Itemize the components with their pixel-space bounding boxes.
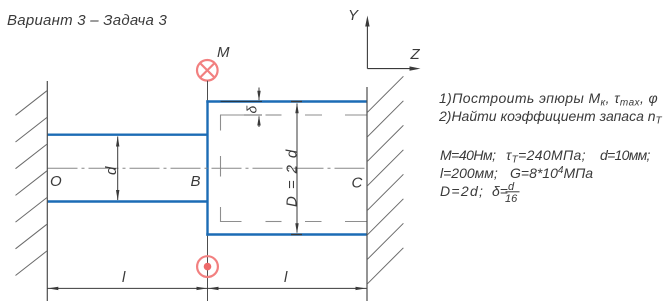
svg-text:d=10мм;: d=10мм; — [600, 147, 651, 163]
bottom dimension line l + l — [47, 287, 366, 290]
torque M symbol (circle with X, into page) — [197, 60, 218, 81]
svg-text:l=200мм;: l=200мм; — [440, 165, 498, 181]
svg-text:1)Построить эпюры Мк, τmax, φ: 1)Построить эпюры Мк, τmax, φ — [439, 90, 658, 109]
svg-text:Вариант 3 – Задача 3: Вариант 3 – Задача 3 — [7, 12, 168, 29]
right wall line — [366, 87, 368, 301]
svg-text:Z: Z — [410, 46, 421, 63]
svg-text:O: O — [50, 173, 62, 190]
svg-text:Y: Y — [348, 7, 359, 24]
svg-text:δ: δ — [244, 106, 260, 114]
stem from M symbol to shaft — [207, 81, 209, 101]
svg-text:l: l — [122, 269, 126, 286]
dimension d (left segment) — [116, 136, 119, 201]
svg-text:C: C — [352, 175, 363, 192]
svg-text:d: d — [103, 166, 120, 175]
svg-text:B: B — [191, 173, 201, 190]
coordinate axes Y-Z — [365, 16, 420, 71]
svg-text:D=2d;: D=2d; — [440, 183, 484, 199]
svg-text:M: M — [217, 44, 230, 61]
bore top edge dashes — [220, 114, 262, 116]
svg-text:M=40Нм;: M=40Нм; — [440, 147, 496, 163]
svg-text:16: 16 — [505, 193, 518, 205]
svg-text:G=8*104МПа: G=8*104МПа — [510, 165, 593, 181]
bore left edge dashes — [220, 115, 222, 131]
dimension delta (wall thickness of bore) — [221, 88, 263, 128]
bore bottom edge dashes — [220, 221, 242, 223]
shaft segment BC (large diameter D=2d), blue outline — [206, 100, 367, 235]
inner bore (hidden hole) dashed outline — [220, 115, 367, 222]
svg-text:D=2d: D=2d — [284, 143, 301, 207]
centerline (axis) dash-dot — [48, 167, 367, 169]
svg-text:d: d — [508, 181, 515, 193]
right wall hatching — [367, 76, 403, 283]
dimension D=2d (right segment) — [291, 102, 302, 235]
left wall hatching — [16, 91, 48, 276]
svg-text:τТ=240МПа;: τТ=240МПа; — [506, 147, 586, 166]
svg-text:l: l — [284, 269, 288, 286]
reaction torque symbol (circle with dot, out of page) — [207, 236, 209, 301]
left wall line — [46, 81, 48, 301]
shaft segment OB (small diameter d), blue outline — [47, 135, 208, 202]
svg-text:2)Найти коэффициент запаса nТ: 2)Найти коэффициент запаса nТ — [438, 108, 663, 127]
